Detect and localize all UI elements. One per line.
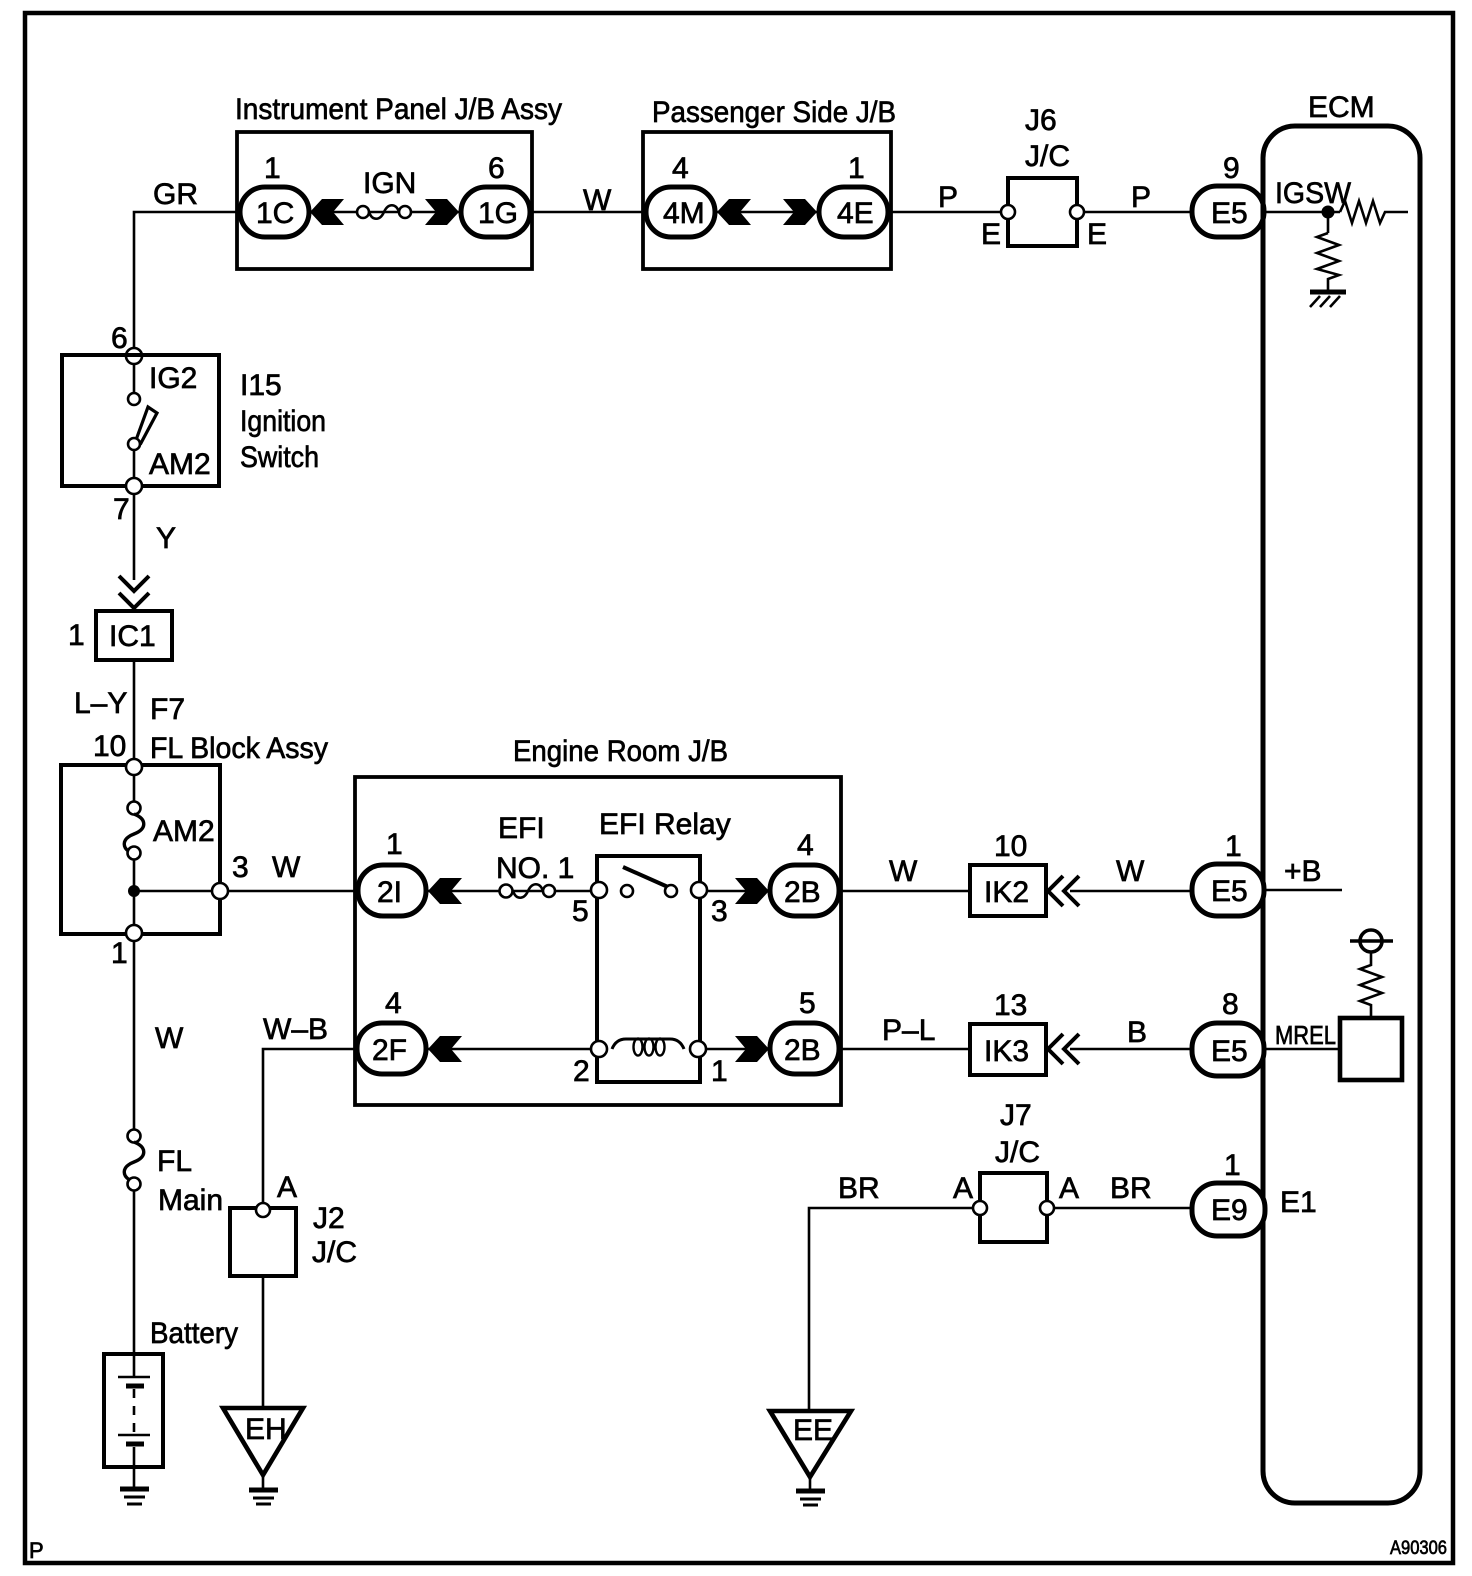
svg-text:P: P — [29, 1538, 44, 1563]
svg-text:10: 10 — [93, 730, 126, 763]
svg-text:Switch: Switch — [240, 441, 319, 474]
wire W from FL block pin 1 down to FL Main — [134, 941, 184, 1130]
svg-text:8: 8 — [1222, 988, 1239, 1021]
wire inside J/B from 1C to 1G — [308, 211, 462, 214]
connector 4E pin 1 — [819, 152, 888, 237]
svg-text:W–B: W–B — [263, 1013, 328, 1046]
fuse EFI NO. 1 — [496, 812, 574, 898]
svg-text:13: 13 — [994, 989, 1027, 1022]
fuse IGN — [357, 167, 416, 219]
svg-text:FL Block Assy: FL Block Assy — [150, 732, 328, 765]
svg-text:IGSW: IGSW — [1275, 177, 1352, 210]
svg-text:IC1: IC1 — [109, 620, 156, 653]
Passenger Side J/B box — [643, 96, 896, 269]
svg-text:3: 3 — [711, 895, 728, 928]
wire from relay terminal 1 to 2B — [703, 1048, 773, 1051]
svg-text:E1: E1 — [1280, 1186, 1317, 1219]
battery — [104, 1317, 238, 1489]
connector E5 pin 8 (MREL) — [1192, 988, 1264, 1076]
svg-text:9: 9 — [1223, 152, 1240, 185]
wire Y from pin 7 to IC1 — [134, 494, 176, 580]
svg-text:3: 3 — [232, 851, 249, 884]
wire from junction down to FL block pin 1 — [111, 897, 142, 970]
svg-text:BR: BR — [1110, 1172, 1152, 1205]
junction connector J7 J/C pins A A — [953, 1099, 1079, 1242]
svg-text:E: E — [1087, 218, 1107, 251]
wire +B inside ECM — [1264, 855, 1342, 890]
ground below battery — [120, 1489, 149, 1504]
svg-text:P: P — [1131, 181, 1151, 214]
arrowhead at 4E — [783, 199, 817, 225]
IGSW net: wire, junction, resistor to internal circuit — [1264, 177, 1352, 219]
svg-text:J7: J7 — [1000, 1099, 1032, 1132]
wire from 2F to relay terminal 2 — [424, 1048, 594, 1051]
svg-text:EH: EH — [245, 1413, 287, 1446]
fusible link FL Main — [124, 1130, 223, 1218]
wire BR from EE ground to J7 — [809, 1172, 976, 1410]
svg-text:BR: BR — [838, 1172, 880, 1205]
svg-text:W: W — [272, 851, 301, 884]
svg-text:6: 6 — [488, 152, 505, 185]
arrowhead at 1G — [425, 199, 459, 225]
connector 1C pin 1 — [240, 152, 309, 237]
wire W from 2B to IK2 — [839, 855, 972, 891]
svg-text:2F: 2F — [372, 1034, 407, 1067]
arrowhead at 2B upper — [735, 878, 769, 904]
svg-text:E9: E9 — [1211, 1194, 1248, 1227]
ground EH — [223, 1408, 303, 1504]
svg-text:2I: 2I — [377, 876, 402, 909]
svg-text:7: 7 — [113, 493, 130, 526]
svg-text:MREL: MREL — [1275, 1020, 1336, 1050]
connector IC1 pin 1 — [68, 611, 172, 660]
arrowhead at 2B lower — [735, 1036, 769, 1062]
wire W-B from 2F to J2 junction — [263, 1013, 359, 1205]
wire inside J/B from 4M to 4E — [713, 211, 822, 214]
svg-text:AM2: AM2 — [149, 448, 211, 481]
wire from 2I to EFI relay terminal 5 — [424, 890, 594, 893]
svg-text:1: 1 — [848, 152, 865, 185]
svg-text:E5: E5 — [1211, 875, 1248, 908]
svg-text:B: B — [1127, 1016, 1147, 1049]
relay coil terminals 2 and 1 — [573, 1039, 728, 1089]
svg-text:4: 4 — [385, 987, 402, 1020]
connector 4M pin 4 — [646, 152, 715, 237]
svg-text:GR: GR — [153, 178, 198, 211]
svg-text:A: A — [1059, 1172, 1079, 1205]
svg-text:1: 1 — [264, 152, 281, 185]
wire P from J6 to E5 — [1084, 181, 1195, 214]
wire from relay terminal 3 to 2B — [704, 890, 773, 893]
resistor (vertical) from IGSW junction — [1317, 218, 1339, 291]
connector 1G pin 6 — [461, 152, 530, 237]
junction dot and branch to pin 3 — [128, 851, 249, 899]
EFI Relay box — [597, 808, 731, 1082]
switch IG2/AM2 contacts and lever — [128, 362, 211, 481]
svg-text:W: W — [889, 855, 918, 888]
I15 Ignition Switch box — [62, 355, 326, 486]
svg-text:2: 2 — [573, 1055, 590, 1088]
connector IK3 pin 13 — [970, 989, 1046, 1075]
svg-text:IK3: IK3 — [984, 1035, 1029, 1068]
svg-text:+B: +B — [1284, 855, 1322, 888]
wire BR from J7 to E9 — [1054, 1172, 1195, 1208]
ECM box — [1263, 91, 1420, 1503]
svg-text:W: W — [1116, 855, 1145, 888]
wire from FL Main to battery — [133, 1190, 136, 1356]
svg-text:1C: 1C — [256, 197, 294, 230]
svg-text:4E: 4E — [837, 197, 874, 230]
svg-text:1: 1 — [386, 828, 403, 861]
wire W from 1G to 4M — [530, 184, 647, 217]
svg-text:IK2: IK2 — [984, 876, 1029, 909]
ground EE — [770, 1411, 851, 1505]
wire GR from ignition switch pin 6 up to connector 1C — [134, 178, 237, 352]
svg-text:4M: 4M — [663, 197, 705, 230]
supply symbol circle inside ECM — [1350, 930, 1393, 952]
svg-text:FL: FL — [157, 1145, 192, 1178]
svg-text:W: W — [155, 1022, 184, 1055]
svg-text:1: 1 — [1224, 1149, 1241, 1182]
connector IK2 pin 10 — [970, 830, 1046, 916]
svg-text:J2: J2 — [313, 1202, 345, 1235]
svg-text:2B: 2B — [784, 876, 821, 909]
svg-text:Y: Y — [156, 522, 176, 555]
svg-text:AM2: AM2 — [153, 815, 215, 848]
wire B from IK3 to E5 — [1070, 1016, 1195, 1049]
wire P from 4E to J6 — [891, 181, 1010, 214]
svg-text:Passenger Side J/B: Passenger Side J/B — [652, 96, 896, 129]
svg-text:6: 6 — [111, 322, 128, 355]
svg-text:Battery: Battery — [150, 1317, 238, 1350]
svg-text:5: 5 — [799, 987, 816, 1020]
connector E5 pin 9 — [1192, 152, 1264, 237]
svg-text:P–L: P–L — [882, 1014, 935, 1047]
FL Block Assy box with pin 10 — [61, 730, 328, 934]
resistor (vertical) above driver block — [1360, 952, 1382, 1008]
double chevron at IK3 — [1048, 1034, 1079, 1064]
svg-text:E: E — [981, 218, 1001, 251]
junction connector J6 J/C — [981, 104, 1107, 251]
svg-text:1: 1 — [1225, 830, 1242, 863]
chassis ground inside ECM — [1310, 292, 1346, 307]
connector E9 pin 1 (E1) — [1192, 1149, 1317, 1236]
Engine Room J/B box — [355, 735, 841, 1105]
svg-text:4: 4 — [672, 152, 689, 185]
svg-text:F7: F7 — [150, 693, 185, 726]
svg-text:1: 1 — [68, 619, 85, 652]
svg-text:J/C: J/C — [312, 1236, 357, 1269]
wire MREL inside ECM — [1264, 1020, 1342, 1050]
node pin 6 at ignition switch — [111, 322, 142, 364]
main relay driver block inside ECM — [1340, 1008, 1402, 1080]
connector 2I pin 1 — [358, 828, 426, 916]
svg-text:EFI: EFI — [498, 812, 545, 845]
double chevron at IK2 — [1048, 876, 1079, 906]
node pin 7 at ignition switch — [113, 478, 142, 526]
svg-text:J/C: J/C — [995, 1136, 1040, 1169]
arrowhead at 4M — [717, 199, 751, 225]
svg-text:EE: EE — [793, 1414, 833, 1447]
svg-text:Main: Main — [158, 1184, 223, 1217]
svg-text:1: 1 — [111, 937, 128, 970]
svg-text:L–Y: L–Y — [74, 687, 127, 720]
arrowhead at 2I — [428, 878, 462, 904]
wire from J2 down to EH ground — [262, 1276, 265, 1410]
arrowhead at 2F — [428, 1036, 462, 1062]
Instrument Panel J/B Assy box — [235, 93, 562, 269]
svg-text:J6: J6 — [1025, 104, 1057, 137]
svg-text:P: P — [938, 181, 958, 214]
svg-text:Ignition: Ignition — [240, 405, 326, 438]
svg-text:J/C: J/C — [1025, 140, 1070, 173]
svg-text:NO. 1: NO. 1 — [496, 852, 574, 885]
svg-text:5: 5 — [572, 895, 589, 928]
svg-text:A: A — [277, 1171, 297, 1204]
double chevron arrows into IC1 — [119, 576, 149, 608]
svg-text:IG2: IG2 — [149, 362, 197, 395]
svg-text:1G: 1G — [478, 197, 518, 230]
wire L-Y from IC1 to FL block (F7) — [74, 660, 185, 761]
wire W from IK2 to E5 — [1070, 855, 1195, 891]
wire P-L from 2B to IK3 — [839, 1014, 972, 1049]
svg-text:Engine Room J/B: Engine Room J/B — [513, 735, 728, 768]
svg-text:A: A — [953, 1172, 973, 1205]
junction connector J2 J/C pin A — [230, 1171, 357, 1276]
connector 2F pin 4 — [357, 987, 426, 1074]
connector E5 pin 1 (+B) — [1192, 830, 1264, 916]
fusible link AM2 inside FL block — [124, 775, 214, 897]
svg-text:ECM: ECM — [1308, 91, 1375, 124]
svg-text:E5: E5 — [1211, 197, 1248, 230]
wire W from FL block pin 3 to 2I — [228, 851, 361, 891]
svg-text:10: 10 — [994, 830, 1027, 863]
svg-text:I15: I15 — [240, 369, 282, 402]
resistor (horizontal) on IGSW line — [1340, 201, 1408, 223]
svg-text:4: 4 — [797, 829, 814, 862]
arrowhead at 1C — [310, 199, 344, 225]
svg-text:EFI Relay: EFI Relay — [599, 808, 731, 841]
svg-text:1: 1 — [711, 1055, 728, 1088]
svg-text:W: W — [583, 184, 612, 217]
connector 2B pin 4 (upper) — [770, 829, 839, 916]
svg-text:2B: 2B — [784, 1034, 821, 1067]
svg-text:E5: E5 — [1211, 1035, 1248, 1068]
connector 2B pin 5 (lower) — [770, 987, 839, 1074]
svg-text:IGN: IGN — [363, 167, 416, 200]
svg-text:A90306: A90306 — [1390, 1538, 1447, 1559]
relay switch contacts terminals 5 and 3 — [572, 867, 728, 928]
svg-text:Instrument Panel J/B Assy: Instrument Panel J/B Assy — [235, 93, 562, 126]
